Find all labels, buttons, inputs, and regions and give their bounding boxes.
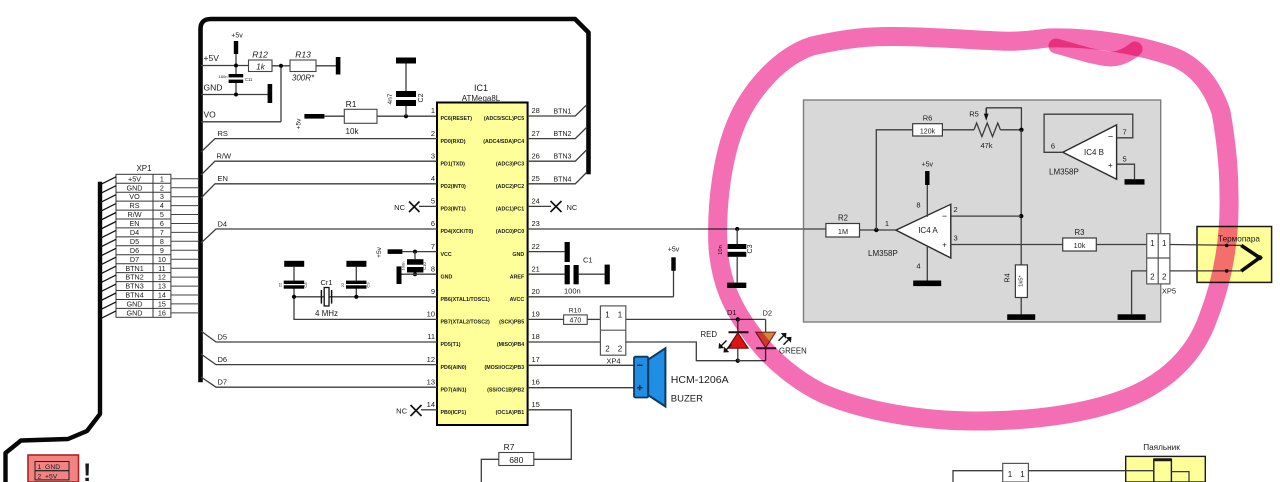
svg-text:GND: GND [204, 83, 223, 93]
amplifier module box [804, 100, 1161, 322]
svg-text:(SCK)PB5: (SCK)PB5 [499, 320, 524, 326]
svg-text:15: 15 [532, 400, 540, 409]
wire net D6 to pin 12 [201, 354, 437, 365]
wire GND rail [201, 94, 268, 96]
soldering iron box [1126, 456, 1206, 482]
svg-text:D4: D4 [218, 219, 228, 228]
svg-text:R4: R4 [1003, 273, 1012, 282]
ground bar left osc cap [284, 261, 304, 267]
wire harness bus to power connector (bottom-left thick line) [6, 184, 101, 482]
svg-text:14: 14 [427, 400, 435, 409]
svg-text:R6: R6 [923, 114, 933, 123]
svg-text:1: 1 [1162, 239, 1167, 248]
capacitor C1 100n on AREF pin 21 [528, 256, 610, 296]
svg-text:4n7: 4n7 [387, 93, 394, 104]
svg-text:BUZER: BUZER [671, 394, 703, 405]
svg-text:+5v: +5v [922, 162, 934, 169]
svg-text:R1: R1 [346, 99, 357, 109]
svg-text:XP5: XP5 [1162, 287, 1176, 296]
IC1 left pin numbers 1-14 [427, 106, 435, 409]
svg-text:13: 13 [158, 282, 166, 291]
svg-text:PD4(XCK/T0): PD4(XCK/T0) [441, 229, 474, 235]
svg-text:RED: RED [701, 330, 718, 339]
svg-text:ATMega8L: ATMega8L [462, 94, 501, 103]
svg-text:19: 19 [532, 310, 540, 319]
svg-text:PD6(AIN0): PD6(AIN0) [441, 365, 467, 371]
svg-text:BTN4: BTN4 [125, 291, 143, 300]
wire pin23 segment inside box to R2 [804, 228, 826, 230]
svg-text:(ADC1)PC1: (ADC1)PC1 [496, 207, 524, 213]
resistor R6 120k [913, 114, 943, 136]
svg-text:18: 18 [532, 332, 540, 341]
svg-text:4 MHz: 4 MHz [315, 309, 338, 318]
svg-text:3: 3 [160, 192, 164, 201]
svg-text:1: 1 [431, 106, 435, 115]
svg-text:HCM-1206A: HCM-1206A [671, 374, 729, 386]
svg-text:120k: 120k [920, 128, 936, 135]
svg-text:1M: 1M [838, 227, 848, 236]
wire net BTN3 from pin 26 [528, 150, 587, 162]
wire feedback column down to R4 [1020, 130, 1022, 265]
wire XP6 to soldering iron [1028, 470, 1153, 472]
ground bar IC4B pin 5 [1125, 179, 1145, 184]
svg-text:9: 9 [431, 287, 435, 296]
svg-text:1k5*: 1k5* [1019, 274, 1025, 286]
svg-text:PD7(AIN1): PD7(AIN1) [441, 387, 467, 393]
junction R12/R13 node [279, 64, 283, 68]
svg-text:RS: RS [130, 201, 140, 210]
LED D1 red [719, 308, 748, 361]
ground bar pin 8 [397, 266, 438, 284]
no-connect pin 5 [394, 202, 437, 213]
op-amp IC4 A LM358P [885, 201, 958, 271]
resistor R7 680 [499, 442, 534, 466]
svg-text:AVCC: AVCC [510, 297, 525, 303]
svg-text:28: 28 [532, 106, 540, 115]
svg-text:D5: D5 [130, 237, 139, 246]
svg-text:12: 12 [158, 273, 166, 282]
svg-text:GND: GND [512, 252, 524, 258]
svg-text:16: 16 [532, 377, 540, 386]
wire R6 to R5 [942, 129, 974, 131]
svg-text:(SS/OC1B)PB2: (SS/OC1B)PB2 [487, 387, 524, 393]
svg-text:(MOSI/OC2)PB3: (MOSI/OC2)PB3 [484, 365, 524, 371]
svg-text:Cr1: Cr1 [320, 278, 332, 287]
svg-text:VO: VO [204, 110, 217, 120]
wire net D5 to pin 11 [201, 331, 437, 342]
svg-text:13: 13 [427, 377, 435, 386]
XP1 pin wires to module frame [171, 179, 199, 313]
svg-text:11: 11 [158, 264, 165, 273]
wire XP5 pin2 to thermocouple [1170, 270, 1241, 272]
svg-text:+5v: +5v [231, 33, 243, 40]
wire pin 15 to R7 [528, 410, 572, 460]
resistor R12 [249, 50, 273, 72]
svg-text:PB6(XTAL1/TOSC1): PB6(XTAL1/TOSC1) [441, 297, 490, 303]
power bar +5v on VCC pin 7 [376, 246, 437, 257]
svg-text:22: 22 [532, 242, 540, 251]
XP1 hatch strokes to harness bus [100, 177, 116, 319]
svg-text:21: 21 [532, 264, 540, 273]
crystal Cr1 4MHz [315, 278, 338, 318]
svg-text:27: 27 [532, 129, 540, 138]
svg-text:C10: C10 [422, 261, 427, 269]
svg-text:22: 22 [340, 282, 345, 287]
wire net D7 to pin 13 [201, 377, 437, 387]
svg-text:4: 4 [916, 262, 920, 271]
svg-text:2: 2 [1162, 272, 1167, 281]
svg-text:R/W: R/W [128, 210, 142, 219]
svg-text:BTN4: BTN4 [554, 176, 572, 183]
power flag +5v on AVCC pin 20 [528, 247, 680, 297]
svg-text:6: 6 [160, 219, 164, 228]
svg-text:300R*: 300R* [292, 74, 315, 83]
svg-text:C8: C8 [303, 282, 308, 288]
resistor R2 1M [826, 214, 860, 238]
svg-text:1k: 1k [256, 63, 265, 72]
svg-text:2 +5V: 2 +5V [38, 473, 58, 480]
svg-text:1: 1 [1008, 470, 1013, 479]
no-connect pin 24 [528, 201, 578, 212]
svg-text:(ADC4/SDA)PC4: (ADC4/SDA)PC4 [483, 139, 524, 145]
svg-text:BTN3: BTN3 [125, 282, 143, 291]
wire feedback riser to R6 [876, 130, 912, 230]
junction at +5v flag [234, 64, 238, 68]
svg-text:Паяльник: Паяльник [1143, 443, 1180, 452]
svg-text:+5V: +5V [128, 174, 141, 183]
svg-text:(ADC2)PC2: (ADC2)PC2 [496, 184, 524, 190]
svg-text:+: + [942, 241, 947, 250]
svg-text:100n: 100n [564, 287, 581, 296]
svg-text:11: 11 [427, 332, 435, 341]
wire VO rail [201, 121, 281, 123]
power flag +5v for op-amp pin 8 [922, 162, 934, 217]
wire R3 to XP5 pin 1 [1096, 244, 1146, 246]
svg-text:C3: C3 [747, 244, 754, 253]
wire net R/W to pin 3 [201, 161, 437, 175]
svg-text:PD0(RXD): PD0(RXD) [441, 139, 466, 145]
svg-text:PD1(TXD): PD1(TXD) [441, 161, 466, 167]
wire net EN to pin 4 [201, 184, 437, 198]
svg-text:AREF: AREF [510, 274, 525, 280]
capacitor C2 4n7 [387, 58, 425, 117]
connector XP1 body [116, 174, 171, 317]
svg-text:8: 8 [431, 264, 435, 273]
junction LED top node [736, 317, 740, 321]
svg-text:LM358P: LM358P [868, 249, 898, 258]
power flag +5v (top-left) [231, 33, 243, 55]
wire C11 vertical [235, 66, 237, 75]
svg-text:BTN2: BTN2 [125, 273, 143, 282]
svg-text:2: 2 [1150, 272, 1155, 281]
svg-text:PC6(RESET): PC6(RESET) [441, 116, 473, 122]
wire pin 5 to ground [1117, 164, 1135, 179]
junction op-amp A output node [874, 228, 878, 232]
LCD front-panel module frame [201, 19, 589, 380]
svg-text:R10: R10 [569, 308, 582, 315]
ground for op-amp pin 4 [913, 246, 941, 287]
wire LED top rail [738, 318, 766, 320]
svg-text:470: 470 [570, 318, 582, 325]
svg-text:6: 6 [431, 219, 435, 228]
wire net BTN1 from pin 28 [528, 105, 587, 117]
svg-text:12: 12 [427, 355, 435, 364]
ground bar below R4 [1007, 314, 1035, 320]
wire R2 to op-amp output node [860, 229, 896, 231]
capacitor C3 10n [718, 229, 754, 283]
svg-text:IC4 B: IC4 B [1084, 148, 1104, 157]
svg-text:26: 26 [532, 151, 540, 160]
svg-text:PB0(ICP1): PB0(ICP1) [441, 410, 467, 416]
ground bar XP5 pin 2 [1118, 314, 1146, 320]
svg-text:D5: D5 [218, 333, 228, 342]
svg-text:2: 2 [954, 205, 958, 214]
svg-text:2: 2 [431, 129, 435, 138]
svg-text:8: 8 [916, 201, 920, 210]
svg-text:10: 10 [158, 255, 166, 264]
svg-text:RS: RS [218, 129, 228, 138]
svg-text:R3: R3 [1075, 228, 1085, 237]
junction crystal right [354, 295, 358, 299]
svg-text:BTN1: BTN1 [554, 109, 572, 116]
svg-text:2: 2 [605, 345, 610, 354]
resistor R10 470 on pin 19 [528, 308, 601, 325]
thermocouple junction chevron [1241, 245, 1262, 271]
wire XP5 pin1 to thermocouple [1170, 244, 1241, 247]
svg-text:R/W: R/W [217, 152, 233, 161]
wire left osc cap [293, 288, 295, 297]
svg-text:+5v: +5v [376, 246, 383, 257]
power bar +5v for R1 [296, 114, 345, 129]
svg-text:9: 9 [160, 246, 164, 255]
svg-text:8: 8 [160, 237, 164, 246]
svg-text:GND: GND [441, 274, 453, 280]
wire R12 to R13 [272, 65, 290, 67]
svg-text:BTN1: BTN1 [125, 264, 143, 273]
svg-text:BTN2: BTN2 [554, 131, 572, 138]
svg-text:1 GND: 1 GND [38, 464, 61, 471]
svg-text:1: 1 [1150, 239, 1155, 248]
svg-text:(ADC3)PC3: (ADC3)PC3 [496, 161, 524, 167]
op IC1 ATMega8L microcontroller [437, 83, 528, 425]
junction C11/GND [234, 93, 238, 97]
wire net pin 23 to amplifier input [528, 228, 826, 230]
svg-text:+5v: +5v [296, 118, 303, 129]
pink stroke end overlap [1056, 46, 1135, 59]
svg-text:GREEN: GREEN [779, 347, 807, 356]
wire XP5 pin 2 to ground [1132, 271, 1147, 314]
svg-text:R12: R12 [252, 50, 268, 60]
ground bar right osc cap [346, 261, 366, 267]
resistor R4 1k5 [1003, 265, 1028, 314]
wire pin 9 XTAL1 [294, 296, 437, 298]
svg-text:D2: D2 [763, 309, 773, 318]
resistor R3 10k [1063, 228, 1097, 251]
connector XP5 [1147, 234, 1176, 296]
svg-text:C1: C1 [583, 256, 593, 265]
svg-text:IC4 A: IC4 A [918, 226, 938, 235]
svg-text:D4: D4 [130, 228, 139, 237]
wire net D4 to pin 6 [201, 229, 437, 243]
svg-text:6: 6 [1051, 142, 1055, 151]
junction R5 wiper node [1019, 128, 1023, 132]
svg-text:NC: NC [394, 203, 405, 212]
svg-text:2: 2 [160, 183, 164, 192]
svg-text:D6: D6 [130, 246, 139, 255]
svg-text:−: − [942, 211, 947, 221]
svg-text:7: 7 [1123, 128, 1127, 137]
svg-text:VO: VO [129, 192, 140, 201]
wire pin 2 inverting input [951, 215, 1021, 217]
svg-text:1: 1 [885, 219, 889, 228]
svg-text:NC: NC [396, 407, 407, 416]
svg-text:BTN3: BTN3 [554, 154, 572, 161]
svg-text:R7: R7 [504, 442, 515, 452]
resistor R1 [344, 99, 377, 136]
connector XP4 [600, 306, 625, 366]
svg-text:EN: EN [218, 174, 228, 183]
svg-text:4: 4 [431, 174, 435, 183]
wire net BTN2 from pin 27 [528, 127, 587, 139]
buzzer BZ1 HCM-1206A [634, 348, 665, 406]
IC1 right pin labels [483, 116, 525, 416]
svg-text:VCC: VCC [441, 252, 452, 258]
wire XP4 pin1 to LED node [626, 318, 738, 320]
ground bar below C3 [727, 283, 746, 288]
svg-text:PD3(INT1): PD3(INT1) [441, 207, 467, 213]
wire IC4B unity feedback loop pin6 to pin7 [1044, 114, 1133, 152]
wire pin 10 XTAL2 [294, 297, 437, 320]
junction thermocouple wire 2 [1225, 269, 1229, 273]
svg-text:GND: GND [127, 300, 143, 309]
svg-text:GND: GND [127, 183, 143, 192]
wire heater supply [953, 471, 1003, 482]
svg-text:15: 15 [158, 300, 166, 309]
svg-text:(ADC0)PC0: (ADC0)PC0 [496, 229, 524, 235]
junction LED bottom node [736, 359, 740, 363]
no-connect pin 14 [396, 405, 437, 416]
svg-text:C11: C11 [245, 77, 253, 82]
svg-text:3: 3 [954, 234, 958, 243]
trimmer R5 47k [969, 108, 1021, 150]
svg-text:24: 24 [532, 197, 540, 206]
svg-text:7: 7 [160, 228, 164, 237]
svg-text:3: 3 [431, 151, 435, 160]
svg-text:PD5(T1): PD5(T1) [441, 342, 461, 348]
svg-text:2: 2 [618, 345, 623, 354]
svg-text:(OC1A)PB1: (OC1A)PB1 [496, 410, 525, 416]
wire R1 to IC pin 1 [377, 115, 437, 117]
svg-text:1: 1 [1020, 470, 1025, 479]
ground bar on GND rail [268, 84, 273, 103]
svg-text:+: + [1108, 161, 1113, 170]
junction VCC decoupling node [413, 250, 417, 254]
wire pin 3 non-inverting input to R3 [951, 244, 1063, 246]
wire net BTN4 from pin 25 [528, 172, 587, 184]
svg-text:D6: D6 [218, 355, 228, 364]
svg-text:(MISO)PB4: (MISO)PB4 [497, 342, 524, 348]
svg-text:20: 20 [532, 287, 540, 296]
svg-text:(ADC5/SCL)PC5: (ADC5/SCL)PC5 [484, 116, 524, 122]
svg-text:17: 17 [532, 355, 540, 364]
svg-text:1: 1 [618, 311, 623, 320]
svg-text:680: 680 [509, 455, 523, 465]
junction C3 node [735, 227, 739, 231]
resistor R13 [290, 50, 316, 83]
svg-text:PD2(INT0): PD2(INT0) [441, 184, 467, 190]
svg-text:5: 5 [160, 210, 164, 219]
thermocouple box [1197, 227, 1272, 283]
wire pin 18 through XP4 pin2 to LED bottom rail [528, 342, 738, 361]
svg-text:R2: R2 [838, 214, 848, 223]
svg-text:EN: EN [130, 219, 140, 228]
capacitor C10 100n decoupling [401, 252, 428, 275]
wire R7 left lead down [481, 459, 499, 482]
svg-text:XP4: XP4 [606, 357, 620, 366]
svg-text:10k: 10k [346, 127, 360, 136]
svg-text:GND: GND [127, 309, 143, 318]
svg-text:XP1: XP1 [136, 164, 152, 173]
svg-text:23: 23 [532, 219, 540, 228]
capacitor C9 22p right [340, 281, 371, 289]
op-amp IC4 B LM358P [1051, 125, 1127, 179]
svg-text:+5V: +5V [204, 53, 220, 63]
svg-text:R13: R13 [295, 50, 311, 60]
svg-text:7: 7 [431, 242, 435, 251]
svg-text:14: 14 [158, 291, 166, 300]
junction thermocouple wire 1 [1225, 244, 1229, 248]
svg-text:10: 10 [427, 310, 435, 319]
svg-text:47k: 47k [980, 141, 992, 150]
ground bar pin 22 [528, 242, 570, 262]
svg-text:10k: 10k [1074, 241, 1086, 250]
wire +5v flag drop [235, 53, 237, 66]
svg-text:22: 22 [278, 282, 283, 287]
junction crystal left [292, 295, 296, 299]
svg-text:NC: NC [567, 203, 578, 212]
svg-text:IC1: IC1 [474, 83, 488, 93]
wire net RS to pin 2 [201, 139, 437, 152]
svg-text:4: 4 [160, 201, 164, 210]
wire pin 17 to buzzer minus [528, 364, 634, 366]
wire +5V rail [201, 65, 249, 67]
connector XP6 heater [1003, 463, 1029, 482]
svg-text:1: 1 [605, 311, 610, 320]
wire R13 to terminal bar [316, 65, 337, 67]
wire R5 to feedback column [1000, 129, 1021, 131]
svg-text:LM358P: LM358P [1049, 168, 1079, 177]
wire LED bottom rail [738, 360, 766, 362]
junction inverting input node [1019, 214, 1023, 218]
svg-text:D7: D7 [130, 255, 139, 264]
IC1 right pin numbers 28-15 [532, 106, 540, 409]
junction GND pin 8 node [413, 272, 417, 276]
capacitor C8 22p left [278, 281, 309, 289]
svg-text:C2: C2 [418, 93, 425, 102]
svg-text:−: − [1108, 132, 1113, 142]
svg-text:5: 5 [1123, 155, 1127, 164]
svg-text:C9: C9 [365, 282, 370, 288]
svg-text:5: 5 [431, 197, 435, 206]
IC1 left pin labels [441, 116, 490, 416]
svg-text:R5: R5 [969, 110, 979, 119]
pink highlighter oval [718, 36, 1229, 421]
capacitor C11 160n [219, 74, 253, 83]
red power connector (1 GND / 2 +5V) [28, 455, 79, 482]
terminal bar after R13 [336, 57, 341, 75]
junction C2 node [404, 114, 408, 118]
svg-text:1: 1 [160, 174, 164, 183]
